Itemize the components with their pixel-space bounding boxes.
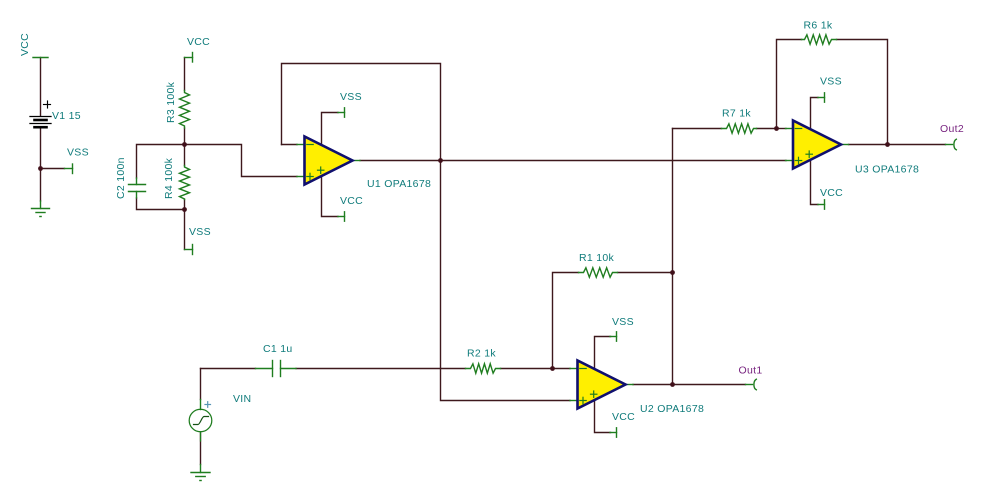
svg-text:U2 OPA1678: U2 OPA1678 — [640, 403, 704, 415]
wire V1 VCC terminal to battery top — [40, 58, 42, 117]
op-amp U1 pin leads — [297, 113, 360, 217]
wire R1 right to node E — [618, 272, 673, 274]
wire node H to Out1 terminal — [673, 384, 746, 386]
wire R4 bottom to node B — [184, 200, 186, 210]
output terminal Out1 — [746, 379, 757, 390]
svg-text:VSS: VSS — [189, 226, 211, 238]
VCC terminal (V1) — [33, 57, 48, 59]
VIN waveform glyph — [194, 417, 209, 425]
svg-text:VCC: VCC — [19, 33, 31, 56]
svg-text:VCC: VCC — [612, 411, 635, 423]
wire VSS node down to ground — [40, 169, 42, 202]
op-amp U3 pin leads — [786, 98, 849, 205]
capacitor C1 — [256, 361, 297, 377]
svg-text:U3 OPA1678: U3 OPA1678 — [855, 164, 919, 176]
junction node E (R1/feedback net) — [670, 270, 675, 275]
VCC terminal (R3) — [185, 53, 193, 63]
svg-text:R1 10k: R1 10k — [579, 252, 615, 264]
U1 positive supply plus mark — [318, 167, 324, 173]
wire VIN bottom to ground — [200, 432, 202, 465]
svg-text:R6 1k: R6 1k — [804, 20, 833, 32]
wire U1 inverting input lead — [282, 144, 298, 146]
resistor R7 — [722, 124, 757, 133]
wire battery bottom to VSS node — [40, 128, 42, 169]
svg-text:U1 OPA1678: U1 OPA1678 — [367, 178, 431, 190]
junction node H (U2 output) — [670, 382, 675, 387]
op-amp U1 — [305, 137, 353, 185]
U3 positive supply plus mark — [806, 151, 812, 157]
wire VCC terminal to R3 top — [184, 58, 186, 91]
resistor R4 — [180, 166, 190, 200]
svg-text:VSS: VSS — [340, 91, 362, 103]
op-amp U2 VSS supply bar — [616, 332, 618, 341]
VIN plus mark — [205, 402, 211, 408]
U2 inverting input minus mark — [580, 368, 586, 370]
svg-text:Out2: Out2 — [940, 123, 964, 135]
op-amp U2 — [578, 361, 626, 409]
svg-text:VSS: VSS — [612, 316, 634, 328]
wire U1 VSS pin run — [322, 113, 339, 145]
wire node C down to U2 noninverting input — [441, 161, 571, 401]
wire U1 VCC pin run — [322, 177, 339, 217]
svg-text:VSS: VSS — [820, 76, 842, 88]
wire node C to U3 noninverting input — [441, 160, 787, 162]
svg-text:R3 100k: R3 100k — [165, 81, 177, 123]
svg-text:Out1: Out1 — [739, 365, 763, 377]
wire C2 bottom to node B — [137, 198, 185, 210]
wire vertical net R7/R1/U2 output — [672, 129, 674, 385]
op-amp U3 VCC supply bar — [824, 200, 826, 209]
capacitor C2 — [129, 178, 146, 198]
battery V1 — [30, 117, 51, 128]
U2 positive supply plus mark — [591, 391, 597, 397]
wire node A to U1 noninverting input — [185, 145, 298, 177]
resistor R3 — [180, 91, 190, 129]
wire node B down to VSS terminal — [184, 210, 186, 250]
junction node A (R3/R4/C2/U1+) — [182, 142, 187, 147]
wire U2 VSS pin run — [595, 337, 611, 369]
junction node F (R7/R6/U3-) — [774, 126, 779, 131]
op-amp U2 pin leads — [570, 337, 633, 433]
wire node A left to C2 top — [137, 145, 185, 179]
wire node A to R4 top — [184, 145, 186, 166]
wire VIN top to C1 left — [201, 368, 256, 370]
U3 inverting input minus mark — [795, 128, 801, 130]
wire U3 VCC pin run — [811, 161, 819, 205]
V1 plus mark — [44, 101, 51, 108]
svg-text:R7 1k: R7 1k — [722, 108, 751, 120]
svg-text:VCC: VCC — [820, 187, 843, 199]
svg-text:VCC: VCC — [340, 195, 363, 207]
U2 noninverting input plus mark — [580, 397, 586, 403]
junction node G (U3 output/R6) — [885, 142, 890, 147]
svg-text:VIN: VIN — [233, 393, 251, 405]
resistor R1 — [579, 268, 618, 277]
op-amp U1 VSS supply bar — [344, 108, 346, 117]
wire U3 feedback loop right — [837, 40, 888, 145]
wire R3 bottom to node A — [184, 128, 186, 145]
svg-text:R4 100k: R4 100k — [163, 157, 175, 199]
wire node E top to R7 left — [673, 128, 722, 130]
op-amp U3 VSS supply bar — [824, 93, 826, 102]
svg-text:VSS: VSS — [67, 147, 89, 159]
VSS terminal (R4) — [185, 245, 193, 255]
wire R2 right to node D — [501, 368, 553, 370]
op-amp U2 VCC supply bar — [616, 428, 618, 437]
op-amp U1 VCC supply bar — [344, 212, 346, 221]
resistor R6 — [802, 35, 837, 44]
wire node G to Out2 terminal — [888, 144, 946, 146]
wire node F to U3 inverting lead — [777, 128, 787, 130]
wire U1 feedback loop — [282, 64, 441, 161]
svg-text:R2 1k: R2 1k — [467, 348, 496, 360]
svg-text:C2 100n: C2 100n — [115, 157, 127, 199]
wire node D to U2 inverting input — [553, 368, 571, 370]
U1 inverting input minus mark — [307, 144, 313, 146]
output terminal Out2 — [946, 139, 957, 150]
op-amp U3 — [793, 121, 841, 169]
wire R7 right to node F — [757, 128, 777, 130]
wire U3 output to node G — [849, 144, 888, 146]
wire U2 VCC pin run — [595, 401, 611, 433]
wire U3 feedback loop left — [777, 40, 802, 129]
junction node B (R4/C2/VSS) — [182, 207, 187, 212]
svg-text:C1 1u: C1 1u — [263, 343, 293, 355]
ground (VIN) — [191, 465, 210, 481]
svg-text:V1 15: V1 15 — [52, 110, 81, 122]
junction node C (U1 output) — [438, 158, 443, 163]
junction V1/VSS node — [38, 166, 43, 171]
wire C1 right to R2 left — [296, 368, 466, 370]
ground (V1) — [32, 201, 50, 217]
svg-text:VCC: VCC — [187, 36, 210, 48]
U1 noninverting input plus mark — [307, 173, 313, 179]
resistor R2 — [466, 364, 501, 373]
wire U3 VSS pin run — [811, 98, 819, 129]
wire VIN vertical — [200, 369, 202, 400]
wire U1 output to node C — [360, 160, 441, 162]
voltage source VIN circle — [189, 400, 212, 442]
junction node D (R2/R1/U2-) — [550, 366, 555, 371]
VSS terminal (V1) — [65, 164, 73, 174]
wire U2 output to node H — [633, 384, 673, 386]
wire node D up to R1 left — [553, 273, 579, 369]
wire VSS node stub right — [41, 168, 65, 170]
U3 noninverting input plus mark — [795, 157, 801, 163]
